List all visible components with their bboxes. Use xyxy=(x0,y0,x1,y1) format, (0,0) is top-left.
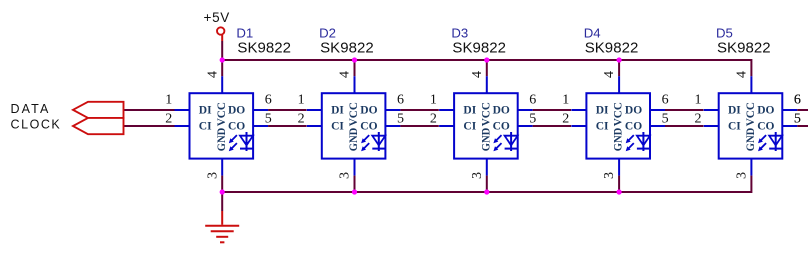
svg-text:2: 2 xyxy=(298,112,305,127)
svg-text:4: 4 xyxy=(205,71,220,78)
svg-text:GND: GND xyxy=(216,128,228,152)
svg-text:6: 6 xyxy=(397,93,404,108)
svg-text:CO: CO xyxy=(493,120,510,132)
svg-text:4: 4 xyxy=(338,71,353,78)
svg-text:VCC: VCC xyxy=(216,102,228,126)
svg-text:3: 3 xyxy=(735,172,750,179)
svg-text:SK9822: SK9822 xyxy=(585,39,639,56)
svg-text:DI: DI xyxy=(199,104,212,116)
svg-text:6: 6 xyxy=(529,93,536,108)
svg-text:VCC: VCC xyxy=(348,102,360,126)
svg-text:1: 1 xyxy=(430,93,437,108)
svg-text:3: 3 xyxy=(602,172,617,179)
svg-text:2: 2 xyxy=(430,112,437,127)
svg-text:VCC: VCC xyxy=(480,102,492,126)
svg-text:D1: D1 xyxy=(236,25,253,40)
svg-text:2: 2 xyxy=(562,112,569,127)
svg-text:4: 4 xyxy=(470,71,485,78)
svg-text:D4: D4 xyxy=(584,25,601,40)
svg-text:DI: DI xyxy=(728,104,741,116)
svg-text:SK9822: SK9822 xyxy=(717,39,771,56)
svg-text:D2: D2 xyxy=(319,25,336,40)
svg-text:D3: D3 xyxy=(451,25,468,40)
svg-text:5: 5 xyxy=(397,112,404,127)
svg-text:5: 5 xyxy=(794,112,801,127)
svg-text:4: 4 xyxy=(602,71,617,78)
svg-text:CO: CO xyxy=(757,120,774,132)
svg-text:GND: GND xyxy=(480,128,492,152)
svg-text:GND: GND xyxy=(613,128,625,152)
svg-text:SK9822: SK9822 xyxy=(237,39,291,56)
svg-text:DO: DO xyxy=(228,104,245,116)
svg-text:1: 1 xyxy=(695,93,702,108)
svg-text:3: 3 xyxy=(338,172,353,179)
svg-text:CO: CO xyxy=(625,120,642,132)
svg-text:1: 1 xyxy=(562,93,569,108)
svg-text:DO: DO xyxy=(493,104,510,116)
svg-text:2: 2 xyxy=(695,112,702,127)
svg-text:4: 4 xyxy=(735,71,750,78)
svg-text:CI: CI xyxy=(199,120,212,132)
svg-text:3: 3 xyxy=(470,172,485,179)
svg-text:CO: CO xyxy=(228,120,245,132)
svg-text:5: 5 xyxy=(662,112,669,127)
svg-text:5: 5 xyxy=(265,112,272,127)
svg-text:3: 3 xyxy=(205,172,220,179)
svg-text:VCC: VCC xyxy=(745,102,757,126)
svg-text:6: 6 xyxy=(794,93,801,108)
svg-text:GND: GND xyxy=(348,128,360,152)
svg-text:6: 6 xyxy=(265,93,272,108)
svg-text:D5: D5 xyxy=(716,25,733,40)
svg-text:CI: CI xyxy=(596,120,609,132)
svg-text:DI: DI xyxy=(463,104,476,116)
svg-text:SK9822: SK9822 xyxy=(452,39,506,56)
svg-text:VCC: VCC xyxy=(613,102,625,126)
svg-text:5: 5 xyxy=(529,112,536,127)
svg-text:DO: DO xyxy=(360,104,377,116)
svg-text:SK9822: SK9822 xyxy=(320,39,374,56)
svg-text:DI: DI xyxy=(331,104,344,116)
svg-text:1: 1 xyxy=(165,93,172,108)
svg-text:1: 1 xyxy=(298,93,305,108)
svg-text:2: 2 xyxy=(165,112,172,127)
svg-text:CI: CI xyxy=(728,120,741,132)
svg-text:CO: CO xyxy=(360,120,377,132)
svg-text:DO: DO xyxy=(757,104,774,116)
svg-text:GND: GND xyxy=(745,128,757,152)
svg-text:CI: CI xyxy=(331,120,344,132)
svg-text:CI: CI xyxy=(463,120,476,132)
svg-text:6: 6 xyxy=(662,93,669,108)
svg-text:DI: DI xyxy=(596,104,609,116)
svg-text:DO: DO xyxy=(625,104,642,116)
svg-text:+5V: +5V xyxy=(204,10,231,25)
svg-text:DATA: DATA xyxy=(11,102,51,116)
svg-text:CLOCK: CLOCK xyxy=(11,118,62,132)
